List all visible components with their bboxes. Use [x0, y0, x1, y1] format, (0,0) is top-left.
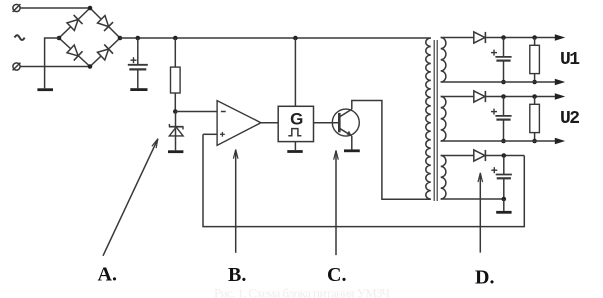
arrow U1 minus output	[555, 79, 565, 85]
ground (zener)	[168, 150, 183, 153]
wire node to op-amp minus input	[175, 111, 217, 113]
capacitor C2	[491, 38, 512, 83]
wire collector to primary	[352, 101, 431, 200]
resistor R1	[171, 67, 181, 93]
node U2 res top	[532, 94, 537, 99]
capacitor C4	[491, 156, 512, 200]
node U1 cap bottom	[501, 80, 506, 85]
svg-text:B.: B.	[228, 264, 246, 286]
node U1 res top	[532, 35, 537, 40]
transformer secondary winding W2 (U1)	[441, 38, 446, 82]
generator block G	[278, 106, 313, 141]
wire bridge left node to ground	[45, 38, 59, 88]
node left of bridge	[57, 36, 62, 41]
ground (G)	[287, 150, 302, 153]
node R1-zener	[173, 109, 178, 114]
pointer arrow A	[103, 139, 158, 256]
node U1 cap top	[501, 35, 506, 40]
node feedback cap top	[502, 153, 507, 158]
wire node to zener to ground	[175, 112, 177, 151]
wire op-amp output to G	[261, 122, 278, 124]
capacitor C1 (filter, electrolytic)	[128, 57, 148, 69]
wire C1 to ground	[137, 69, 139, 88]
wire to ground (feedback)	[503, 199, 505, 211]
node feedback bottom	[502, 197, 507, 202]
wire feedback winding top	[441, 155, 525, 157]
diode VD7	[474, 91, 486, 102]
arrow U2 minus output	[555, 138, 565, 144]
wire feedback loop	[203, 134, 524, 226]
transformer T1 primary winding	[426, 38, 431, 199]
svg-text:U1: U1	[560, 50, 580, 70]
svg-text:C.: C.	[327, 264, 346, 286]
node U2 res bottom	[532, 139, 537, 144]
resistor R2	[530, 38, 540, 83]
ground (emitter)	[344, 149, 360, 152]
wire bottom input to bridge bottom	[20, 66, 90, 68]
terminal X2 (bottom input)	[13, 63, 21, 71]
diode VD6	[474, 32, 486, 43]
pointer arrow D	[478, 173, 483, 253]
transistor VT1	[332, 109, 359, 136]
wire bus to G block	[294, 38, 296, 106]
wire U2 bottom	[441, 140, 556, 142]
diode VD2 (bridge top-right)	[97, 15, 113, 31]
diode VD3 (bridge bottom-left)	[66, 44, 82, 60]
transformer secondary winding W4 (feedback)	[441, 156, 446, 200]
svg-text:A.: A.	[98, 264, 117, 286]
diode VD8	[474, 150, 486, 161]
svg-text:U2: U2	[560, 109, 579, 129]
ground (feedback)	[496, 211, 511, 214]
bridge diamond wires	[59, 8, 120, 67]
wire G to transistor base	[314, 122, 340, 124]
wire emitter to ground	[351, 136, 353, 150]
node U2 cap top	[501, 94, 506, 99]
node right of bridge	[118, 36, 123, 41]
svg-text:Рис. 1. Схема блока питания УМ: Рис. 1. Схема блока питания УМЗЧ	[214, 286, 391, 298]
AC source symbol ~	[15, 35, 25, 40]
node bus-C1	[136, 36, 141, 41]
svg-text:G: G	[290, 110, 303, 129]
zener diode VD5	[169, 124, 184, 136]
diode VD1 (bridge top-left)	[66, 15, 82, 31]
arrow U1 plus output	[555, 34, 565, 40]
ground (bridge left)	[37, 88, 53, 91]
svg-text:D.: D.	[475, 267, 494, 289]
resistor R3	[530, 97, 540, 142]
node bus-G	[293, 36, 298, 41]
node U2 cap bottom	[501, 139, 506, 144]
wire bus to R1	[174, 38, 176, 67]
node bottom of bridge	[88, 64, 93, 69]
op-amp DA1	[217, 101, 261, 146]
pointer arrow C	[334, 151, 339, 256]
pointer arrow B	[233, 150, 238, 253]
wire feedback winding bottom	[441, 198, 504, 200]
diode VD4 (bridge bottom-right)	[97, 44, 113, 60]
node top of bridge	[88, 6, 93, 11]
transformer core	[433, 40, 435, 201]
wire R1 to node	[174, 93, 176, 112]
wire U2 top	[441, 96, 556, 98]
transformer secondary winding W3 (U2)	[441, 97, 446, 141]
arrow U2 plus output	[555, 93, 565, 99]
wire top input to bridge top	[20, 7, 90, 9]
node U1 res bottom	[532, 80, 537, 85]
wire op-amp plus input	[203, 133, 217, 135]
wire main bus	[120, 37, 431, 39]
wire bus to C1	[137, 38, 139, 65]
capacitor C3	[491, 97, 512, 142]
ground (C1)	[130, 88, 147, 91]
node bus-R1	[173, 36, 178, 41]
wire U1 bottom	[441, 81, 556, 83]
wire G to ground	[294, 142, 296, 151]
wire U1 top	[441, 37, 556, 39]
terminal X1 (top input)	[13, 4, 21, 12]
